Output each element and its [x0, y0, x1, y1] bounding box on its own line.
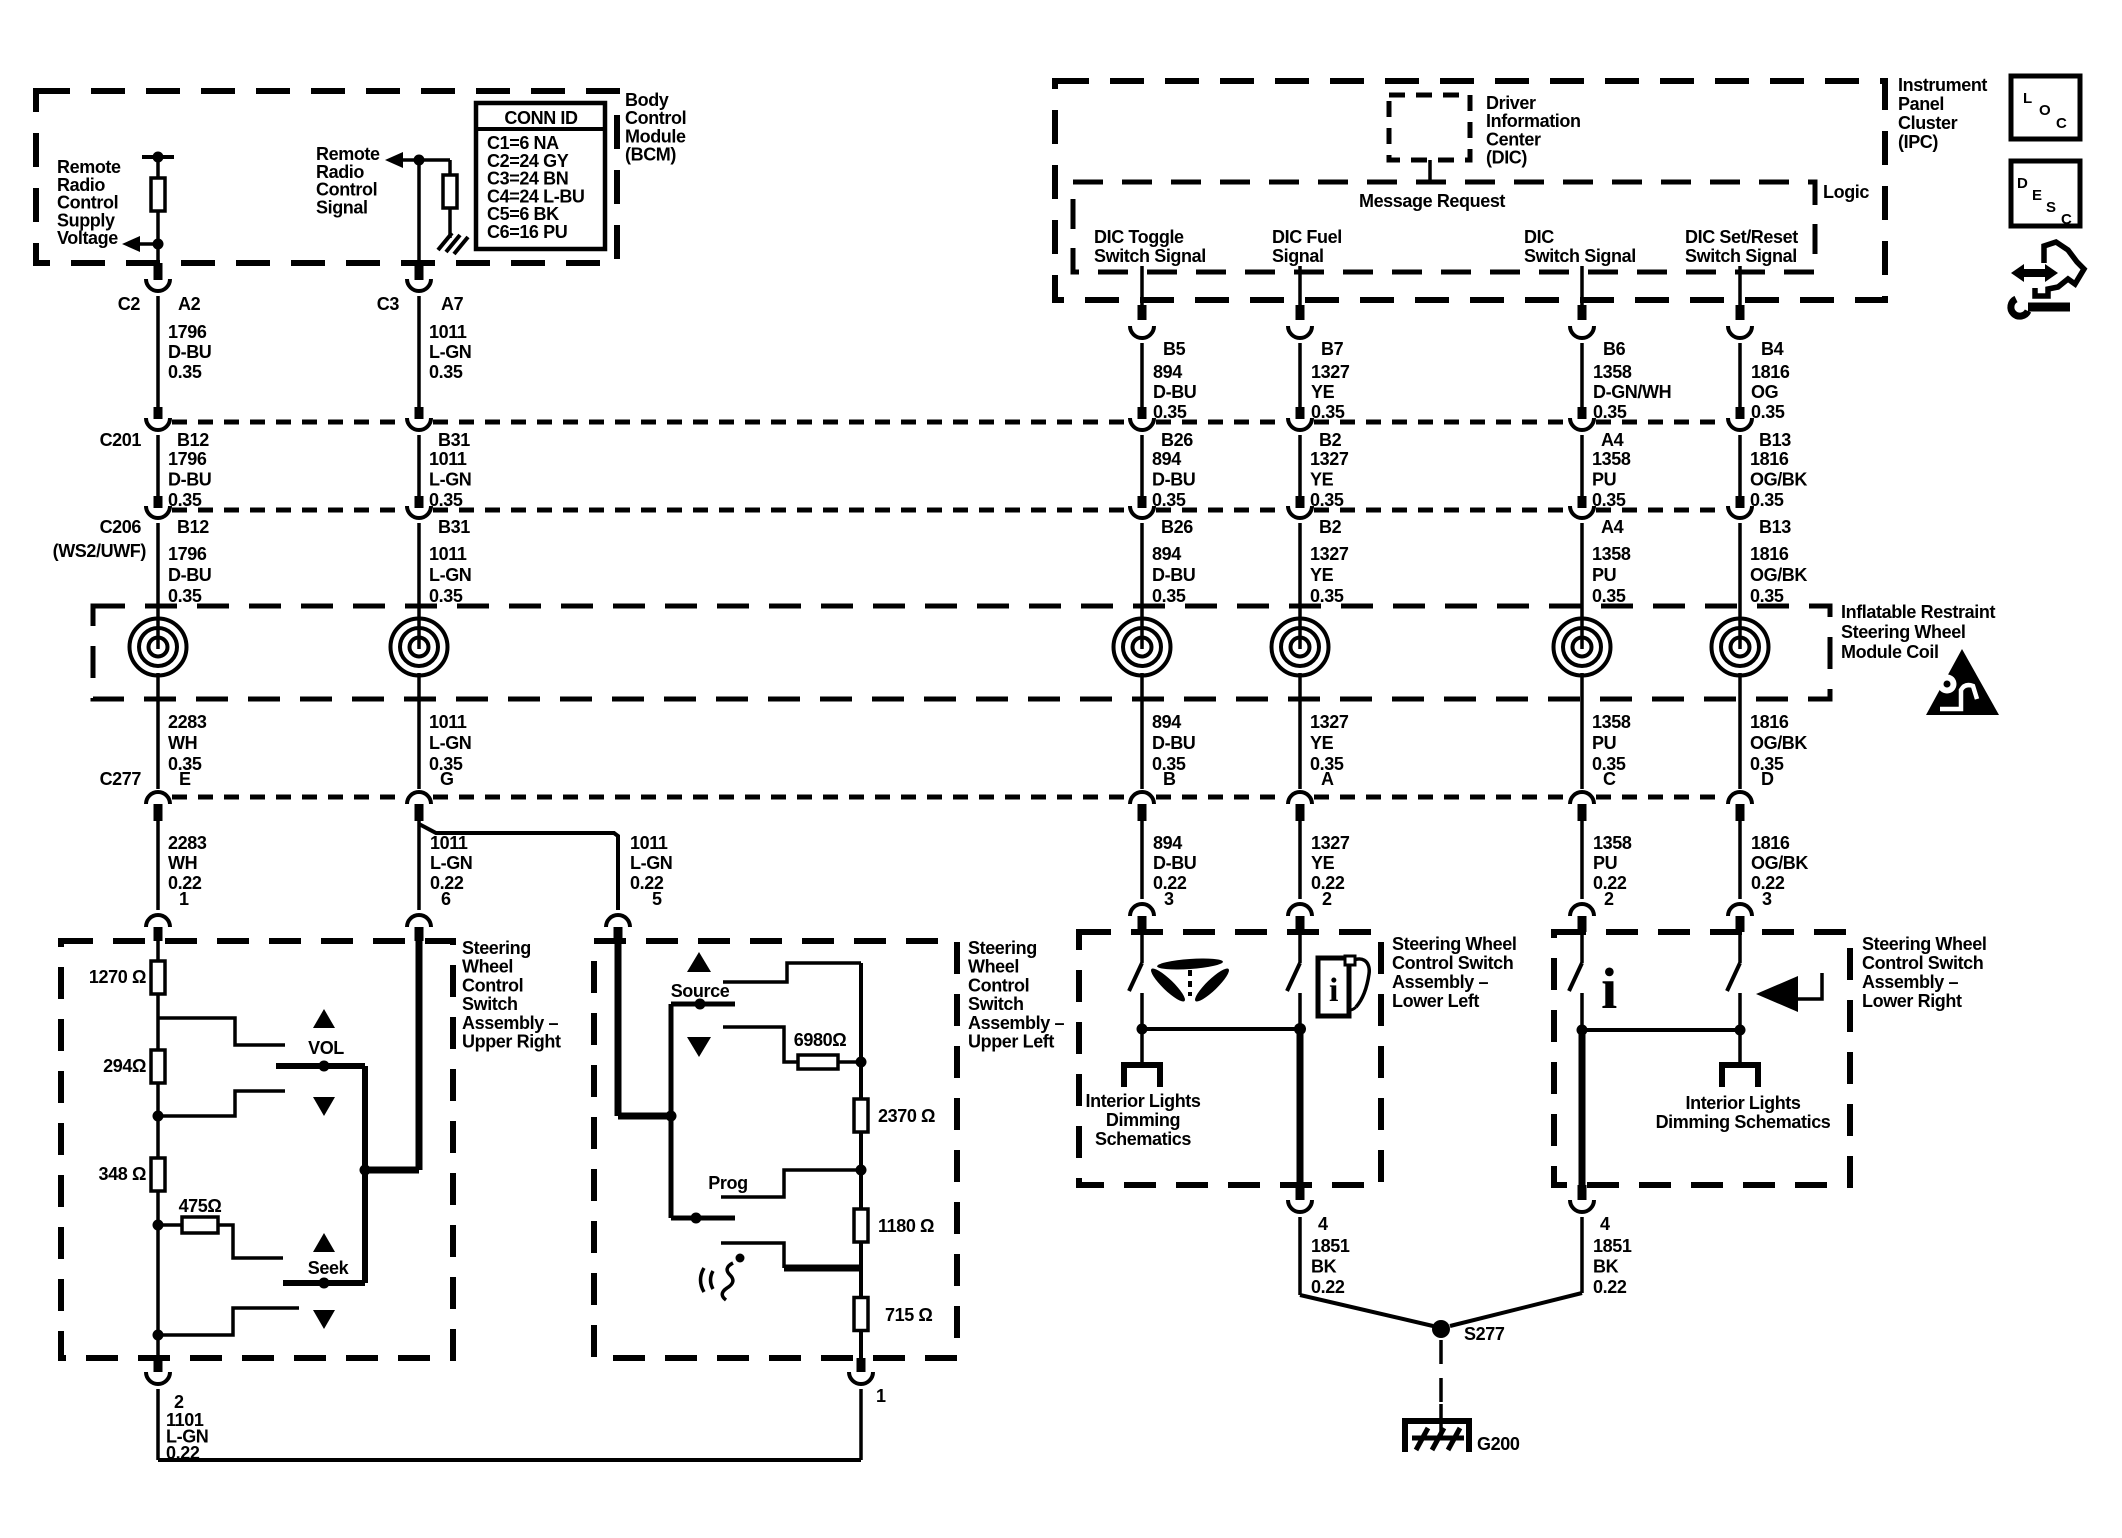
svg-text:Panel: Panel — [1898, 94, 1944, 114]
svg-text:1816: 1816 — [1750, 449, 1789, 469]
svg-text:Center: Center — [1486, 129, 1541, 149]
svg-text:G: G — [440, 769, 454, 789]
svg-text:Switch: Switch — [968, 994, 1024, 1014]
svg-text:Steering: Steering — [462, 938, 531, 958]
svg-text:D: D — [2017, 175, 2028, 192]
svg-text:YE: YE — [1311, 853, 1335, 873]
svg-text:S: S — [2046, 199, 2056, 216]
svg-text:B4: B4 — [1761, 339, 1784, 359]
svg-text:BK: BK — [1593, 1257, 1619, 1277]
svg-text:0.35: 0.35 — [1152, 586, 1186, 606]
svg-text:Control: Control — [625, 108, 686, 128]
svg-text:Dimming: Dimming — [1106, 1110, 1180, 1130]
svg-text:WH: WH — [168, 733, 197, 753]
svg-text:Logic: Logic — [1823, 182, 1869, 202]
svg-text:0.35: 0.35 — [168, 362, 202, 382]
svg-text:C6=16 PU: C6=16 PU — [487, 222, 567, 242]
svg-text:C201: C201 — [100, 430, 142, 450]
svg-text:Source: Source — [671, 981, 730, 1001]
svg-text:294Ω: 294Ω — [103, 1056, 146, 1076]
svg-text:Driver: Driver — [1486, 93, 1536, 113]
svg-text:Seek: Seek — [308, 1258, 350, 1278]
svg-text:0.35: 0.35 — [168, 586, 202, 606]
svg-text:1851: 1851 — [1311, 1236, 1350, 1256]
svg-text:D-GN/WH: D-GN/WH — [1593, 382, 1671, 402]
svg-text:0.35: 0.35 — [429, 490, 463, 510]
svg-text:A7: A7 — [441, 294, 464, 314]
svg-text:G200: G200 — [1477, 1434, 1520, 1454]
svg-text:D-BU: D-BU — [1153, 853, 1196, 873]
svg-text:L-GN: L-GN — [429, 342, 471, 362]
svg-text:Switch Signal: Switch Signal — [1685, 246, 1797, 266]
svg-text:Steering Wheel: Steering Wheel — [1841, 622, 1965, 642]
svg-text:1270 Ω: 1270 Ω — [89, 967, 146, 987]
svg-text:OG: OG — [1751, 382, 1778, 402]
svg-text:1327: 1327 — [1311, 362, 1350, 382]
svg-text:B6: B6 — [1603, 339, 1626, 359]
svg-text:1011: 1011 — [430, 833, 468, 853]
svg-text:0.22: 0.22 — [166, 1443, 200, 1463]
svg-text:0.35: 0.35 — [1152, 490, 1186, 510]
svg-text:0.35: 0.35 — [429, 362, 463, 382]
svg-text:Control: Control — [462, 975, 523, 995]
svg-text:1327: 1327 — [1310, 544, 1349, 564]
svg-text:1011: 1011 — [429, 322, 467, 342]
svg-text:0.35: 0.35 — [1310, 586, 1344, 606]
svg-text:3: 3 — [1762, 889, 1772, 909]
svg-text:0.35: 0.35 — [429, 586, 463, 606]
svg-text:C3: C3 — [377, 294, 400, 314]
svg-text:B13: B13 — [1759, 430, 1791, 450]
svg-text:A4: A4 — [1601, 430, 1624, 450]
svg-text:C277: C277 — [100, 769, 142, 789]
svg-text:B12: B12 — [177, 517, 209, 537]
svg-text:1011: 1011 — [630, 833, 668, 853]
svg-text:Inflatable Restraint: Inflatable Restraint — [1841, 602, 1995, 622]
svg-text:A: A — [1321, 769, 1334, 789]
svg-text:Interior Lights: Interior Lights — [1686, 1093, 1801, 1113]
svg-text:Prog: Prog — [708, 1173, 747, 1193]
svg-text:Dimming Schematics: Dimming Schematics — [1656, 1112, 1831, 1132]
svg-text:2: 2 — [1322, 889, 1332, 909]
svg-text:5: 5 — [652, 889, 662, 909]
svg-text:C: C — [2056, 115, 2067, 132]
svg-text:B26: B26 — [1161, 430, 1193, 450]
svg-text:2283: 2283 — [168, 833, 207, 853]
svg-text:2: 2 — [174, 1392, 184, 1412]
svg-text:1327: 1327 — [1311, 833, 1350, 853]
svg-text:0.35: 0.35 — [1593, 402, 1627, 422]
svg-text:Control Switch: Control Switch — [1392, 953, 1513, 973]
svg-text:OG/BK: OG/BK — [1750, 470, 1807, 490]
svg-text:1: 1 — [179, 889, 189, 909]
svg-text:Control: Control — [968, 975, 1029, 995]
svg-text:D-BU: D-BU — [168, 470, 211, 490]
svg-text:894: 894 — [1153, 833, 1182, 853]
svg-text:715 Ω: 715 Ω — [885, 1305, 932, 1325]
svg-text:1: 1 — [876, 1386, 886, 1406]
svg-text:i: i — [1329, 972, 1338, 1009]
svg-text:894: 894 — [1153, 362, 1182, 382]
svg-text:(DIC): (DIC) — [1486, 148, 1527, 168]
svg-text:1358: 1358 — [1593, 833, 1632, 853]
svg-text:348 Ω: 348 Ω — [99, 1164, 146, 1184]
svg-text:894: 894 — [1152, 712, 1181, 732]
svg-text:Wheel: Wheel — [968, 957, 1019, 977]
svg-text:L-GN: L-GN — [430, 853, 472, 873]
svg-text:Signal: Signal — [316, 197, 368, 217]
svg-text:Steering Wheel: Steering Wheel — [1392, 934, 1516, 954]
svg-text:475Ω: 475Ω — [179, 1196, 222, 1216]
svg-text:DIC: DIC — [1524, 227, 1554, 247]
svg-text:YE: YE — [1310, 733, 1334, 753]
svg-text:1327: 1327 — [1310, 712, 1349, 732]
svg-text:(WS2/UWF): (WS2/UWF) — [53, 541, 147, 561]
svg-text:OG/BK: OG/BK — [1750, 733, 1807, 753]
svg-text:C206: C206 — [100, 517, 142, 537]
svg-text:DIC Set/Reset: DIC Set/Reset — [1685, 227, 1798, 247]
svg-text:Instrument: Instrument — [1898, 75, 1987, 95]
svg-text:CONN ID: CONN ID — [504, 108, 578, 128]
svg-text:3: 3 — [1164, 889, 1174, 909]
svg-text:1796: 1796 — [168, 544, 207, 564]
svg-text:1180 Ω: 1180 Ω — [878, 1216, 934, 1236]
svg-text:Module Coil: Module Coil — [1841, 642, 1939, 662]
svg-text:D-BU: D-BU — [1152, 565, 1195, 585]
svg-text:1358: 1358 — [1592, 544, 1631, 564]
svg-text:0.22: 0.22 — [1311, 1277, 1345, 1297]
svg-text:D-BU: D-BU — [1152, 470, 1195, 490]
svg-text:OG/BK: OG/BK — [1750, 565, 1807, 585]
svg-text:i: i — [1601, 956, 1617, 1021]
svg-text:1816: 1816 — [1751, 362, 1790, 382]
svg-text:C: C — [1603, 769, 1616, 789]
svg-text:E: E — [2032, 187, 2042, 204]
svg-text:A2: A2 — [178, 294, 201, 314]
svg-text:Interior Lights: Interior Lights — [1086, 1091, 1201, 1111]
svg-text:Assembly –: Assembly – — [462, 1013, 558, 1033]
svg-text:L-GN: L-GN — [429, 733, 471, 753]
svg-text:Upper Right: Upper Right — [462, 1032, 561, 1052]
svg-text:Information: Information — [1486, 111, 1581, 131]
svg-text:6: 6 — [441, 889, 451, 909]
svg-text:0.35: 0.35 — [1592, 586, 1626, 606]
svg-text:D-BU: D-BU — [1152, 733, 1195, 753]
svg-text:1796: 1796 — [168, 322, 207, 342]
svg-text:Steering Wheel: Steering Wheel — [1862, 934, 1986, 954]
svg-text:BK: BK — [1311, 1257, 1337, 1277]
svg-text:PU: PU — [1593, 853, 1617, 873]
svg-text:Switch Signal: Switch Signal — [1524, 246, 1636, 266]
svg-text:B31: B31 — [438, 517, 470, 537]
svg-text:0.35: 0.35 — [168, 490, 202, 510]
svg-text:D-BU: D-BU — [168, 565, 211, 585]
svg-text:E: E — [179, 769, 191, 789]
svg-text:1358: 1358 — [1592, 449, 1631, 469]
svg-text:Module: Module — [625, 126, 686, 146]
svg-text:C2: C2 — [118, 294, 141, 314]
svg-text:B12: B12 — [177, 430, 209, 450]
svg-text:1358: 1358 — [1592, 712, 1631, 732]
svg-text:1816: 1816 — [1751, 833, 1790, 853]
svg-text:PU: PU — [1592, 733, 1616, 753]
svg-text:2283: 2283 — [168, 712, 207, 732]
svg-text:DIC Fuel: DIC Fuel — [1272, 227, 1342, 247]
svg-text:Assembly –: Assembly – — [1392, 972, 1488, 992]
svg-text:1011: 1011 — [429, 544, 467, 564]
svg-text:Assembly –: Assembly – — [1862, 972, 1958, 992]
svg-text:0.35: 0.35 — [1750, 490, 1784, 510]
svg-text:Cluster: Cluster — [1898, 113, 1958, 133]
svg-text:Body: Body — [625, 90, 669, 110]
svg-text:B31: B31 — [438, 430, 470, 450]
svg-text:B2: B2 — [1319, 430, 1342, 450]
svg-text:D: D — [1761, 769, 1774, 789]
svg-text:B13: B13 — [1759, 517, 1791, 537]
svg-text:L-GN: L-GN — [630, 853, 672, 873]
svg-text:DIC Toggle: DIC Toggle — [1094, 227, 1184, 247]
svg-text:4: 4 — [1318, 1214, 1328, 1234]
svg-text:YE: YE — [1310, 565, 1334, 585]
svg-text:(IPC): (IPC) — [1898, 132, 1938, 152]
svg-text:B: B — [1163, 769, 1176, 789]
svg-text:0.35: 0.35 — [1153, 402, 1187, 422]
svg-text:0.35: 0.35 — [1311, 402, 1345, 422]
svg-text:894: 894 — [1152, 449, 1181, 469]
svg-text:Wheel: Wheel — [462, 957, 513, 977]
svg-text:Control Switch: Control Switch — [1862, 953, 1983, 973]
svg-text:OG/BK: OG/BK — [1751, 853, 1808, 873]
svg-text:(BCM): (BCM) — [625, 145, 676, 165]
svg-text:0.35: 0.35 — [1750, 586, 1784, 606]
svg-text:Upper Left: Upper Left — [968, 1032, 1054, 1052]
svg-text:4: 4 — [1600, 1214, 1610, 1234]
svg-text:1816: 1816 — [1750, 712, 1789, 732]
svg-text:0.35: 0.35 — [1751, 402, 1785, 422]
svg-text:0.22: 0.22 — [1593, 1277, 1627, 1297]
svg-text:VOL: VOL — [308, 1038, 344, 1058]
svg-text:YE: YE — [1311, 382, 1335, 402]
svg-text:2370 Ω: 2370 Ω — [878, 1106, 935, 1126]
svg-text:PU: PU — [1592, 470, 1616, 490]
svg-text:1011: 1011 — [429, 449, 467, 469]
svg-text:6980Ω: 6980Ω — [794, 1030, 846, 1050]
svg-text:WH: WH — [168, 853, 197, 873]
svg-text:L-GN: L-GN — [429, 470, 471, 490]
svg-text:B7: B7 — [1321, 339, 1344, 359]
svg-text:Signal: Signal — [1272, 246, 1324, 266]
svg-text:S277: S277 — [1464, 1324, 1505, 1344]
svg-text:Assembly –: Assembly – — [968, 1013, 1064, 1033]
svg-text:B5: B5 — [1163, 339, 1186, 359]
svg-text:Switch Signal: Switch Signal — [1094, 246, 1206, 266]
svg-text:Lower Left: Lower Left — [1392, 991, 1479, 1011]
svg-text:1851: 1851 — [1593, 1236, 1632, 1256]
svg-text:Schematics: Schematics — [1095, 1129, 1191, 1149]
svg-text:L-GN: L-GN — [429, 565, 471, 585]
svg-text:1796: 1796 — [168, 449, 207, 469]
svg-text:1011: 1011 — [429, 712, 467, 732]
svg-text:Switch: Switch — [462, 994, 518, 1014]
svg-text:A4: A4 — [1601, 517, 1624, 537]
svg-text:Message Request: Message Request — [1359, 191, 1505, 211]
svg-text:2: 2 — [1604, 889, 1614, 909]
svg-text:B26: B26 — [1161, 517, 1193, 537]
svg-text:D-BU: D-BU — [168, 342, 211, 362]
svg-text:YE: YE — [1310, 470, 1334, 490]
svg-text:894: 894 — [1152, 544, 1181, 564]
svg-text:C: C — [2061, 211, 2072, 228]
svg-text:0.35: 0.35 — [1592, 490, 1626, 510]
svg-text:1327: 1327 — [1310, 449, 1349, 469]
svg-text:D-BU: D-BU — [1153, 382, 1196, 402]
svg-text:Steering: Steering — [968, 938, 1037, 958]
svg-text:O: O — [2039, 102, 2051, 119]
svg-text:0.35: 0.35 — [1310, 490, 1344, 510]
svg-text:1816: 1816 — [1750, 544, 1789, 564]
svg-text:L: L — [2023, 90, 2032, 107]
svg-text:B2: B2 — [1319, 517, 1342, 537]
svg-text:Lower Right: Lower Right — [1862, 991, 1962, 1011]
svg-text:Voltage: Voltage — [57, 228, 118, 248]
svg-text:1358: 1358 — [1593, 362, 1632, 382]
svg-text:PU: PU — [1592, 565, 1616, 585]
